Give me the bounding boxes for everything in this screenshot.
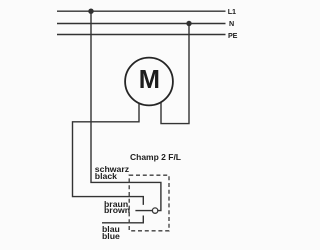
wire L1 drop to switch black lead [91,11,161,210]
wire motor right leg to N [161,24,189,124]
label schwarz black [95,166,129,180]
wire bus N [57,23,226,25]
wire bus L1 [57,10,226,12]
label L1 [228,8,236,15]
node junction on L1 [88,9,93,14]
wire bus PE [57,34,226,36]
motor M label [139,68,160,94]
node junction on N [186,21,191,26]
label N [229,20,234,27]
label Champ 2 F/L [130,153,181,162]
label PE [228,32,237,39]
wire motor left leg to switch brown lead [73,103,144,205]
label braun brown [104,201,130,215]
motor M circle [125,58,173,106]
switch S1 lever [135,210,152,212]
label blau blue [102,226,120,240]
switch S1 enclosure dashed box [129,175,169,231]
wire blue lead stub [102,216,143,223]
switch S1 actuator circle [152,208,157,213]
